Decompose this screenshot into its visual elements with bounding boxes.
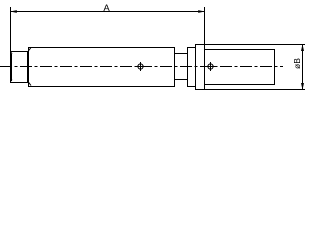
body bottom edge	[28, 86, 175, 87]
head top edge	[204, 49, 275, 50]
center mark 1	[136, 62, 145, 71]
extension line left / pilot left face	[10, 7, 11, 83]
pilot chamfer edge line	[11, 54, 12, 81]
arrowhead A right	[198, 10, 205, 13]
pilot left chamfer diagonal top	[11, 52, 13, 55]
extension line right / collar right face	[204, 7, 205, 90]
body left chamfer diagonal top	[28, 48, 31, 52]
svg-text:øB: øB	[292, 58, 302, 69]
pilot left chamfer diagonal bottom	[11, 80, 13, 82]
collar bottom edge + extension line for B	[195, 89, 305, 90]
dimension line B vertical	[302, 44, 303, 90]
groove bottom surface	[174, 79, 188, 80]
groove top surface	[174, 53, 188, 54]
body top edge	[28, 47, 175, 48]
centerline	[0, 66, 283, 68]
svg-text:A: A	[103, 3, 110, 14]
body left chamfer diagonal bottom	[28, 82, 31, 86]
step face pilot/body	[27, 51, 28, 83]
body bottom edge segment 2	[187, 86, 196, 87]
arrowhead B down	[301, 83, 304, 90]
arrowhead B up	[301, 44, 304, 51]
arrowhead A left	[10, 10, 17, 13]
pilot top edge	[10, 51, 28, 52]
collar left face	[195, 44, 196, 90]
head right face	[274, 49, 275, 85]
body top edge segment 2	[187, 47, 196, 48]
head bottom edge	[204, 84, 275, 85]
body chamfer edge line	[28, 47, 29, 87]
groove left wall	[174, 47, 175, 87]
center mark 2	[206, 62, 215, 71]
collar top edge + extension line for B	[195, 44, 305, 45]
pilot bottom edge	[10, 82, 28, 83]
dimension line A	[10, 11, 205, 12]
groove right wall	[187, 47, 188, 87]
